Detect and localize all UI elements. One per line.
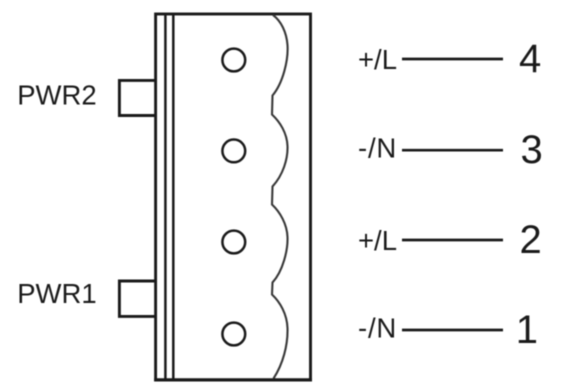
body bottom edge (thicker) xyxy=(154,378,312,381)
svg-text:2: 2 xyxy=(520,218,542,262)
body inner vertical line 2 xyxy=(172,14,175,380)
body inner vertical line 1 xyxy=(164,14,167,380)
PWR2 tab xyxy=(119,80,155,115)
pin hole 1 xyxy=(222,323,245,346)
lead line pin2 xyxy=(402,239,503,242)
pin hole 2 xyxy=(222,231,245,254)
lead line pin3 xyxy=(402,149,503,152)
svg-text:3: 3 xyxy=(521,128,543,172)
wavy edge inside body xyxy=(272,15,288,379)
lead line pin4 xyxy=(402,58,503,61)
PWR1 tab xyxy=(119,281,155,316)
svg-text:+/L: +/L xyxy=(358,225,397,256)
lead line pin1 xyxy=(402,329,503,332)
svg-text:1: 1 xyxy=(516,308,538,352)
pin hole 4 xyxy=(222,49,245,72)
connector body outline xyxy=(156,14,311,380)
svg-text:PWR1: PWR1 xyxy=(17,278,96,309)
svg-text:+/L: +/L xyxy=(358,44,397,75)
svg-text:PWR2: PWR2 xyxy=(17,80,96,111)
svg-text:4: 4 xyxy=(519,37,541,81)
svg-text:-/N: -/N xyxy=(358,313,397,344)
pin hole 3 xyxy=(222,140,245,163)
svg-text:-/N: -/N xyxy=(358,133,397,164)
